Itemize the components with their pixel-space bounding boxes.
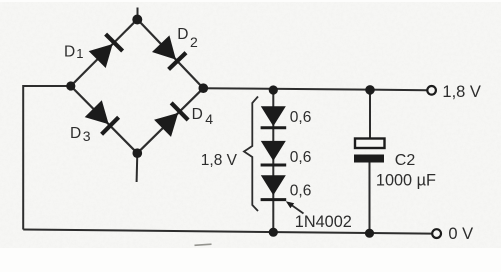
svg-text:D3: D3 <box>70 125 91 144</box>
svg-text:C2: C2 <box>395 152 416 169</box>
wire capacitor top lead <box>369 91 371 139</box>
svg-text:1N4002: 1N4002 <box>295 213 352 231</box>
arrow from 1N4002 to chain diode <box>290 204 304 214</box>
wire bridge arm bottom-right <box>137 88 203 153</box>
node bridge left <box>66 81 75 90</box>
wire AC input stub bottom <box>136 153 139 182</box>
capacitor C2 bottom plate <box>354 155 384 163</box>
wire AC input stub top <box>137 8 139 20</box>
diode D1 <box>89 44 113 68</box>
wire bridge arm left-top <box>71 19 138 86</box>
svg-text:0,6: 0,6 <box>290 149 312 166</box>
node bridge bottom <box>133 148 143 158</box>
svg-text:1,8 V: 1,8 V <box>442 83 481 101</box>
diode chain diode 2 (1N4002) <box>261 141 286 161</box>
terminal 0 V output <box>432 229 441 238</box>
junction chain bottom <box>269 228 278 237</box>
diode D3 <box>85 100 109 124</box>
artifact dash <box>195 244 212 245</box>
svg-text:D1: D1 <box>64 43 83 61</box>
terminal 1,8 V output <box>427 86 436 95</box>
diode chain diode 3 (1N4002) <box>261 175 286 195</box>
diode D2 <box>152 35 176 59</box>
svg-text:1,8 V: 1,8 V <box>201 152 238 169</box>
capacitor C2 top plate <box>355 139 385 149</box>
node bridge top <box>132 15 142 25</box>
node bridge right <box>199 83 209 93</box>
brace for 1,8 V across diode chain <box>244 97 258 212</box>
svg-text:0 V: 0 V <box>448 225 473 243</box>
diode D4 <box>154 113 178 137</box>
wire bottom rail (0 V) <box>23 230 432 234</box>
svg-text:0,6: 0,6 <box>290 109 312 126</box>
junction cap bottom <box>365 229 374 238</box>
svg-text:0,6: 0,6 <box>290 183 312 200</box>
wire capacitor bottom lead <box>369 163 371 234</box>
wire bridge arm top-right <box>137 19 203 88</box>
wire left node to left rail <box>23 86 71 230</box>
svg-text:1000 µF: 1000 µF <box>376 171 436 189</box>
junction cap top <box>365 85 375 95</box>
junction chain top <box>269 85 278 94</box>
diode chain diode 1 (1N4002) <box>261 106 286 126</box>
wire series diode chain vertical <box>272 91 274 233</box>
wire bridge arm left-bottom <box>71 86 138 153</box>
wire top rail (1,8 V) <box>203 88 427 90</box>
